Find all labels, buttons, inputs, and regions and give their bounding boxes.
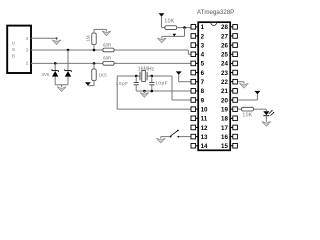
svg-text:9: 9 (201, 97, 205, 104)
svg-text:3: 3 (201, 42, 205, 49)
svg-text:4: 4 (26, 36, 29, 41)
svg-text:68R: 68R (103, 56, 112, 61)
svg-text:21: 21 (221, 88, 228, 95)
svg-text:22: 22 (221, 79, 228, 86)
svg-text:11: 11 (201, 116, 208, 123)
svg-text:5: 5 (201, 61, 205, 68)
svg-text:20: 20 (221, 97, 228, 104)
svg-text:16MHz: 16MHz (138, 66, 155, 72)
svg-text:ATmega328P: ATmega328P (197, 9, 234, 16)
svg-text:10: 10 (201, 106, 208, 113)
svg-text:26: 26 (221, 42, 228, 49)
svg-text:19: 19 (221, 106, 228, 113)
svg-text:14: 14 (201, 143, 208, 150)
svg-text:B: B (12, 54, 15, 59)
svg-text:10K: 10K (242, 113, 252, 119)
svg-text:17: 17 (221, 125, 228, 132)
svg-text:25: 25 (221, 52, 228, 59)
svg-text:7: 7 (201, 79, 205, 86)
svg-text:15: 15 (221, 143, 228, 150)
svg-text:2: 2 (201, 33, 205, 40)
svg-text:12: 12 (201, 125, 208, 132)
svg-text:1: 1 (201, 24, 205, 31)
svg-text:16: 16 (221, 134, 228, 141)
svg-text:24: 24 (221, 61, 228, 68)
svg-text:10pF: 10pF (155, 81, 168, 87)
svg-text:3V6: 3V6 (41, 72, 49, 77)
svg-text:2: 2 (26, 60, 29, 65)
svg-text:3: 3 (26, 47, 29, 52)
svg-text:10K: 10K (164, 18, 174, 24)
svg-text:13: 13 (201, 134, 208, 141)
svg-text:18: 18 (221, 116, 228, 123)
svg-text:1M: 1M (86, 35, 91, 42)
svg-text:28: 28 (221, 24, 228, 31)
svg-text:4: 4 (201, 52, 205, 59)
svg-text:1K5: 1K5 (99, 72, 108, 77)
svg-text:27: 27 (221, 33, 228, 40)
svg-text:8: 8 (201, 88, 205, 95)
svg-text:S: S (12, 47, 15, 52)
svg-text:68R: 68R (103, 42, 112, 47)
svg-text:23: 23 (221, 70, 228, 77)
svg-text:6: 6 (201, 70, 205, 77)
